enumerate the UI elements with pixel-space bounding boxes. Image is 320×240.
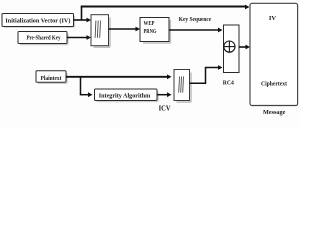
box: Integrity Algorithm — [95, 89, 159, 102]
wire: concatenator C1 to WEP PRNG with arrowhead — [109, 27, 141, 32]
svg-text:Initialization Vector (IV): Initialization Vector (IV) — [5, 18, 70, 25]
svg-text:Ciphertext: Ciphertext — [261, 80, 288, 87]
svg-text:Key Sequence: Key Sequence — [179, 17, 212, 23]
box: Message (IV + Ciphertext) — [250, 3, 298, 105]
label: ICV — [159, 104, 171, 112]
concatenator C1 (IV || key) — [91, 15, 110, 48]
wire: IV bypass branch up and along top to message box, arrowhead — [81, 5, 250, 21]
svg-text:IV: IV — [269, 15, 277, 22]
svg-text:Pre-Shared Key: Pre-Shared Key — [27, 36, 61, 42]
wire: Integrity Algorithm to concatenator C2 with arrowhead, net ICV — [157, 92, 172, 97]
svg-text:WEP: WEP — [144, 21, 155, 27]
wire: Pre-Shared Key to concatenator C1 with arrowhead — [67, 35, 91, 40]
svg-text:ICV: ICV — [159, 104, 171, 112]
svg-text:PRNG: PRNG — [144, 29, 157, 35]
box: Initialization Vector (IV) input — [2, 14, 75, 28]
box: WEP PRNG U1 — [140, 18, 170, 44]
svg-text:Plaintext: Plaintext — [41, 76, 62, 82]
label: Message — [263, 109, 286, 116]
label: Key Sequence — [179, 17, 212, 23]
wire: Plaintext branch down to Integrity Algorithm with arrowhead — [80, 77, 93, 97]
wire: WEP PRNG to XOR with arrowhead, net Key Sequence — [169, 28, 223, 33]
wire: Plaintext to concatenator C2 with arrowhead — [66, 74, 172, 79]
svg-text:RC4: RC4 — [223, 80, 234, 86]
XOR combiner box (RC4) — [224, 25, 240, 73]
label: RC4 — [223, 80, 234, 86]
wire: IV box to concatenator C1 with arrowhead — [74, 18, 92, 23]
wire: XOR output to message box with arrowhead — [239, 45, 250, 50]
svg-text:Integrity Algorithm: Integrity Algorithm — [99, 92, 151, 99]
wire: concatenator C2 up to XOR with arrowhead — [190, 65, 223, 83]
box: Pre-Shared Key input — [18, 32, 68, 45]
box: Plaintext input — [36, 71, 67, 84]
svg-text:Message: Message — [263, 109, 286, 116]
concatenator C2 (plaintext || ICV) — [174, 70, 191, 103]
